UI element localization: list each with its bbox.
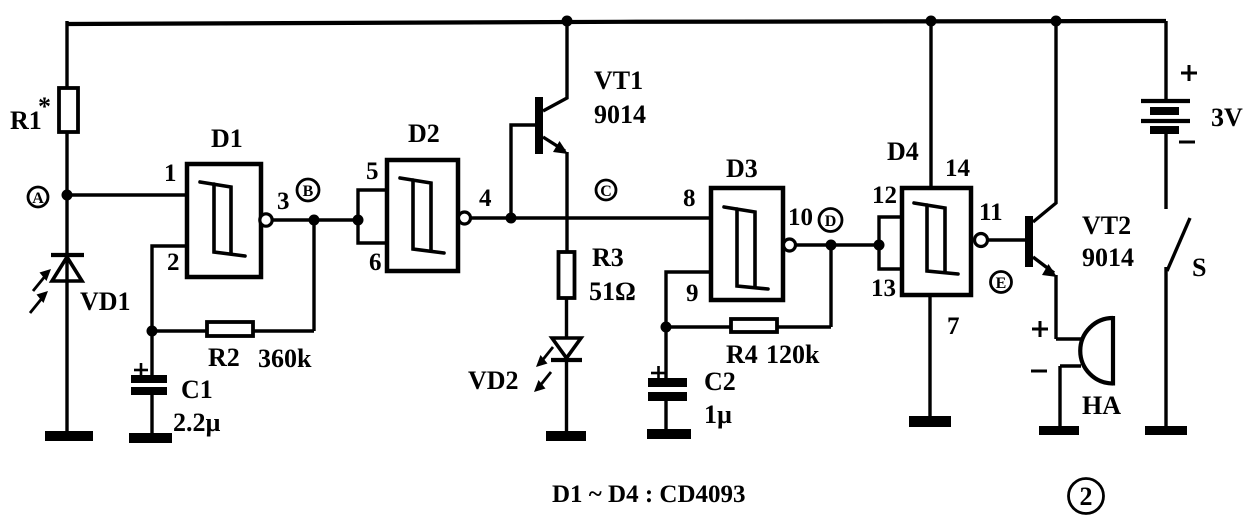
svg-text:4: 4 [479, 185, 492, 212]
svg-text:2.2µ: 2.2µ [173, 408, 221, 437]
svg-text:HA: HA [1082, 391, 1121, 420]
svg-text:D3: D3 [726, 154, 758, 183]
svg-text:3: 3 [277, 188, 290, 215]
svg-text:3V: 3V [1211, 103, 1243, 132]
svg-text:D: D [825, 213, 837, 230]
svg-text:D1 ~ D4 : CD4093: D1 ~ D4 : CD4093 [552, 481, 746, 508]
svg-text:D1: D1 [211, 124, 243, 153]
svg-text:D2: D2 [408, 119, 440, 148]
svg-text:11: 11 [979, 199, 1003, 226]
svg-text:9: 9 [686, 280, 699, 307]
svg-text:VD2: VD2 [468, 366, 519, 395]
svg-text:S: S [1192, 253, 1206, 282]
svg-text:R1: R1 [10, 106, 42, 135]
svg-text:7: 7 [947, 313, 960, 340]
svg-text:VT2: VT2 [1082, 211, 1131, 240]
svg-text:VT1: VT1 [594, 66, 643, 95]
svg-text:13: 13 [871, 275, 896, 302]
svg-text:1µ: 1µ [704, 400, 732, 429]
svg-text:A: A [32, 190, 44, 207]
svg-text:10: 10 [788, 204, 813, 231]
svg-text:5: 5 [366, 158, 379, 185]
svg-text:C1: C1 [181, 375, 213, 404]
svg-text:360k: 360k [258, 344, 312, 373]
svg-text:12: 12 [872, 182, 897, 209]
svg-text:2: 2 [1080, 482, 1093, 511]
svg-text:C: C [600, 183, 612, 200]
svg-text:R3: R3 [592, 243, 624, 272]
svg-text:R4: R4 [726, 340, 758, 369]
svg-text:8: 8 [683, 185, 696, 212]
svg-text:14: 14 [945, 155, 971, 182]
svg-text:1: 1 [164, 160, 177, 187]
svg-text:2: 2 [167, 249, 180, 276]
svg-text:51Ω: 51Ω [589, 277, 636, 306]
svg-text:B: B [303, 183, 314, 200]
svg-text:9014: 9014 [594, 100, 646, 129]
svg-text:E: E [996, 275, 1007, 292]
svg-text:*: * [38, 92, 51, 121]
svg-text:120k: 120k [766, 340, 820, 369]
svg-text:VD1: VD1 [80, 287, 131, 316]
svg-text:6: 6 [369, 249, 382, 276]
svg-text:9014: 9014 [1082, 243, 1134, 272]
svg-text:C2: C2 [704, 367, 736, 396]
svg-text:D4: D4 [887, 137, 919, 166]
svg-text:R2: R2 [208, 343, 240, 372]
